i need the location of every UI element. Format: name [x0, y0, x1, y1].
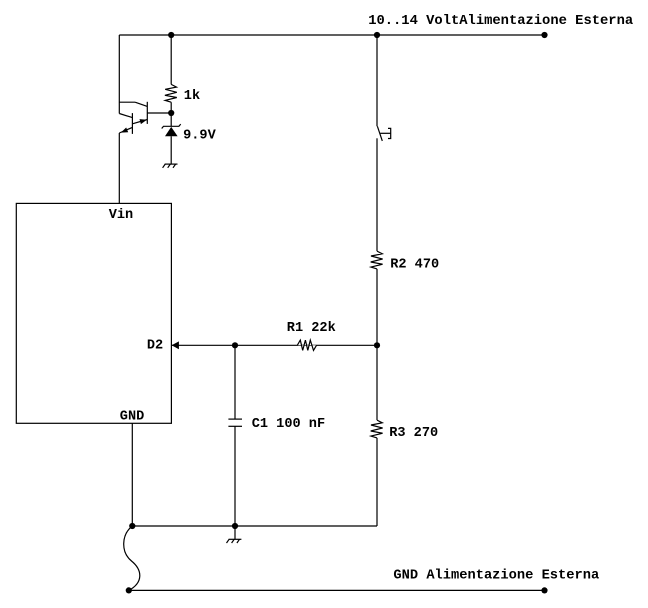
wire C1 ground stub — [234, 526, 236, 539]
wire R3 down to bottom — [376, 438, 378, 526]
svg-text:R1 22k: R1 22k — [287, 321, 336, 336]
svg-text:9.9V: 9.9V — [183, 128, 216, 143]
wire left drop lower to Vin — [118, 133, 120, 203]
svg-text:R2 470: R2 470 — [390, 257, 439, 272]
svg-text:D2: D2 — [147, 339, 163, 354]
transistor Q2 emitter slant — [119, 127, 132, 133]
svg-text:Vin: Vin — [109, 208, 133, 223]
transistor Q1 emitter slant — [132, 120, 147, 124]
wire R2 to node — [376, 269, 378, 345]
switch S1 arm — [377, 126, 382, 141]
zener diode 9.9V cathode bar — [162, 124, 181, 128]
wire C1 bottom lead — [234, 426, 236, 526]
wire switch to R2 — [376, 138, 378, 251]
transistor Q1 collector slant — [135, 102, 147, 106]
zener triangle — [165, 127, 178, 136]
terminal dot bottom right — [541, 587, 547, 593]
switch bracket — [388, 128, 391, 138]
switch actuator — [380, 132, 391, 134]
IC box — [16, 203, 171, 423]
transistor Q1 base-feed horizontal — [119, 101, 135, 103]
resistor 1k — [165, 84, 177, 102]
transistor Q2 bar — [131, 113, 133, 134]
wire S-curve to external ground — [124, 526, 140, 590]
transistor Q2 collector slant — [119, 114, 132, 118]
wire D2 line — [171, 344, 377, 346]
resistor R3 270 — [371, 420, 383, 438]
capacitor C1 plates — [228, 418, 242, 420]
ground symbol (zener) — [163, 164, 178, 168]
wire IC GND lead — [131, 423, 133, 526]
junction dot GND lead — [129, 523, 135, 529]
arrow into D2 pin — [172, 341, 179, 349]
wire right branch top — [376, 35, 378, 126]
wire top rail — [119, 34, 544, 36]
wire C1 top lead — [234, 345, 236, 419]
wire 1k branch top — [170, 35, 172, 84]
resistor R2 470 — [371, 251, 383, 269]
resistor R1 22k — [297, 340, 316, 350]
transistor Q2 emitter arrow — [121, 127, 128, 132]
junction dot top right branch — [374, 32, 380, 38]
transistor Q1 bar — [146, 102, 148, 124]
svg-text:C1 100 nF: C1 100 nF — [252, 417, 325, 432]
wire bottom middle rail — [132, 525, 377, 527]
terminal dot bottom left — [126, 587, 132, 593]
svg-text:GND: GND — [120, 409, 144, 424]
junction dot zener-base — [168, 110, 174, 116]
transistor Q1 emitter arrow — [140, 119, 147, 124]
wire zener to ground — [170, 136, 172, 164]
junction dot top 1k — [168, 32, 174, 38]
svg-text:GND Alimentazione Esterna: GND Alimentazione Esterna — [393, 568, 599, 584]
junction dot D2/C1 — [232, 342, 238, 348]
wire 1k to zener — [170, 102, 172, 126]
terminal dot top right — [541, 32, 547, 38]
svg-text:1k: 1k — [184, 89, 200, 104]
junction dot C1 ground — [232, 523, 238, 529]
ground symbol (C1) — [227, 539, 242, 543]
junction dot R1/R2/R3 — [374, 342, 380, 348]
transistor Q1 base wire to zener node — [147, 112, 171, 114]
wire node to R3 — [376, 345, 378, 420]
svg-text:10..14 VoltAlimentazione Ester: 10..14 VoltAlimentazione Esterna — [368, 13, 633, 29]
wire left drop upper — [118, 35, 120, 114]
wire bottom rail — [129, 589, 545, 591]
svg-text:R3 270: R3 270 — [389, 426, 438, 441]
